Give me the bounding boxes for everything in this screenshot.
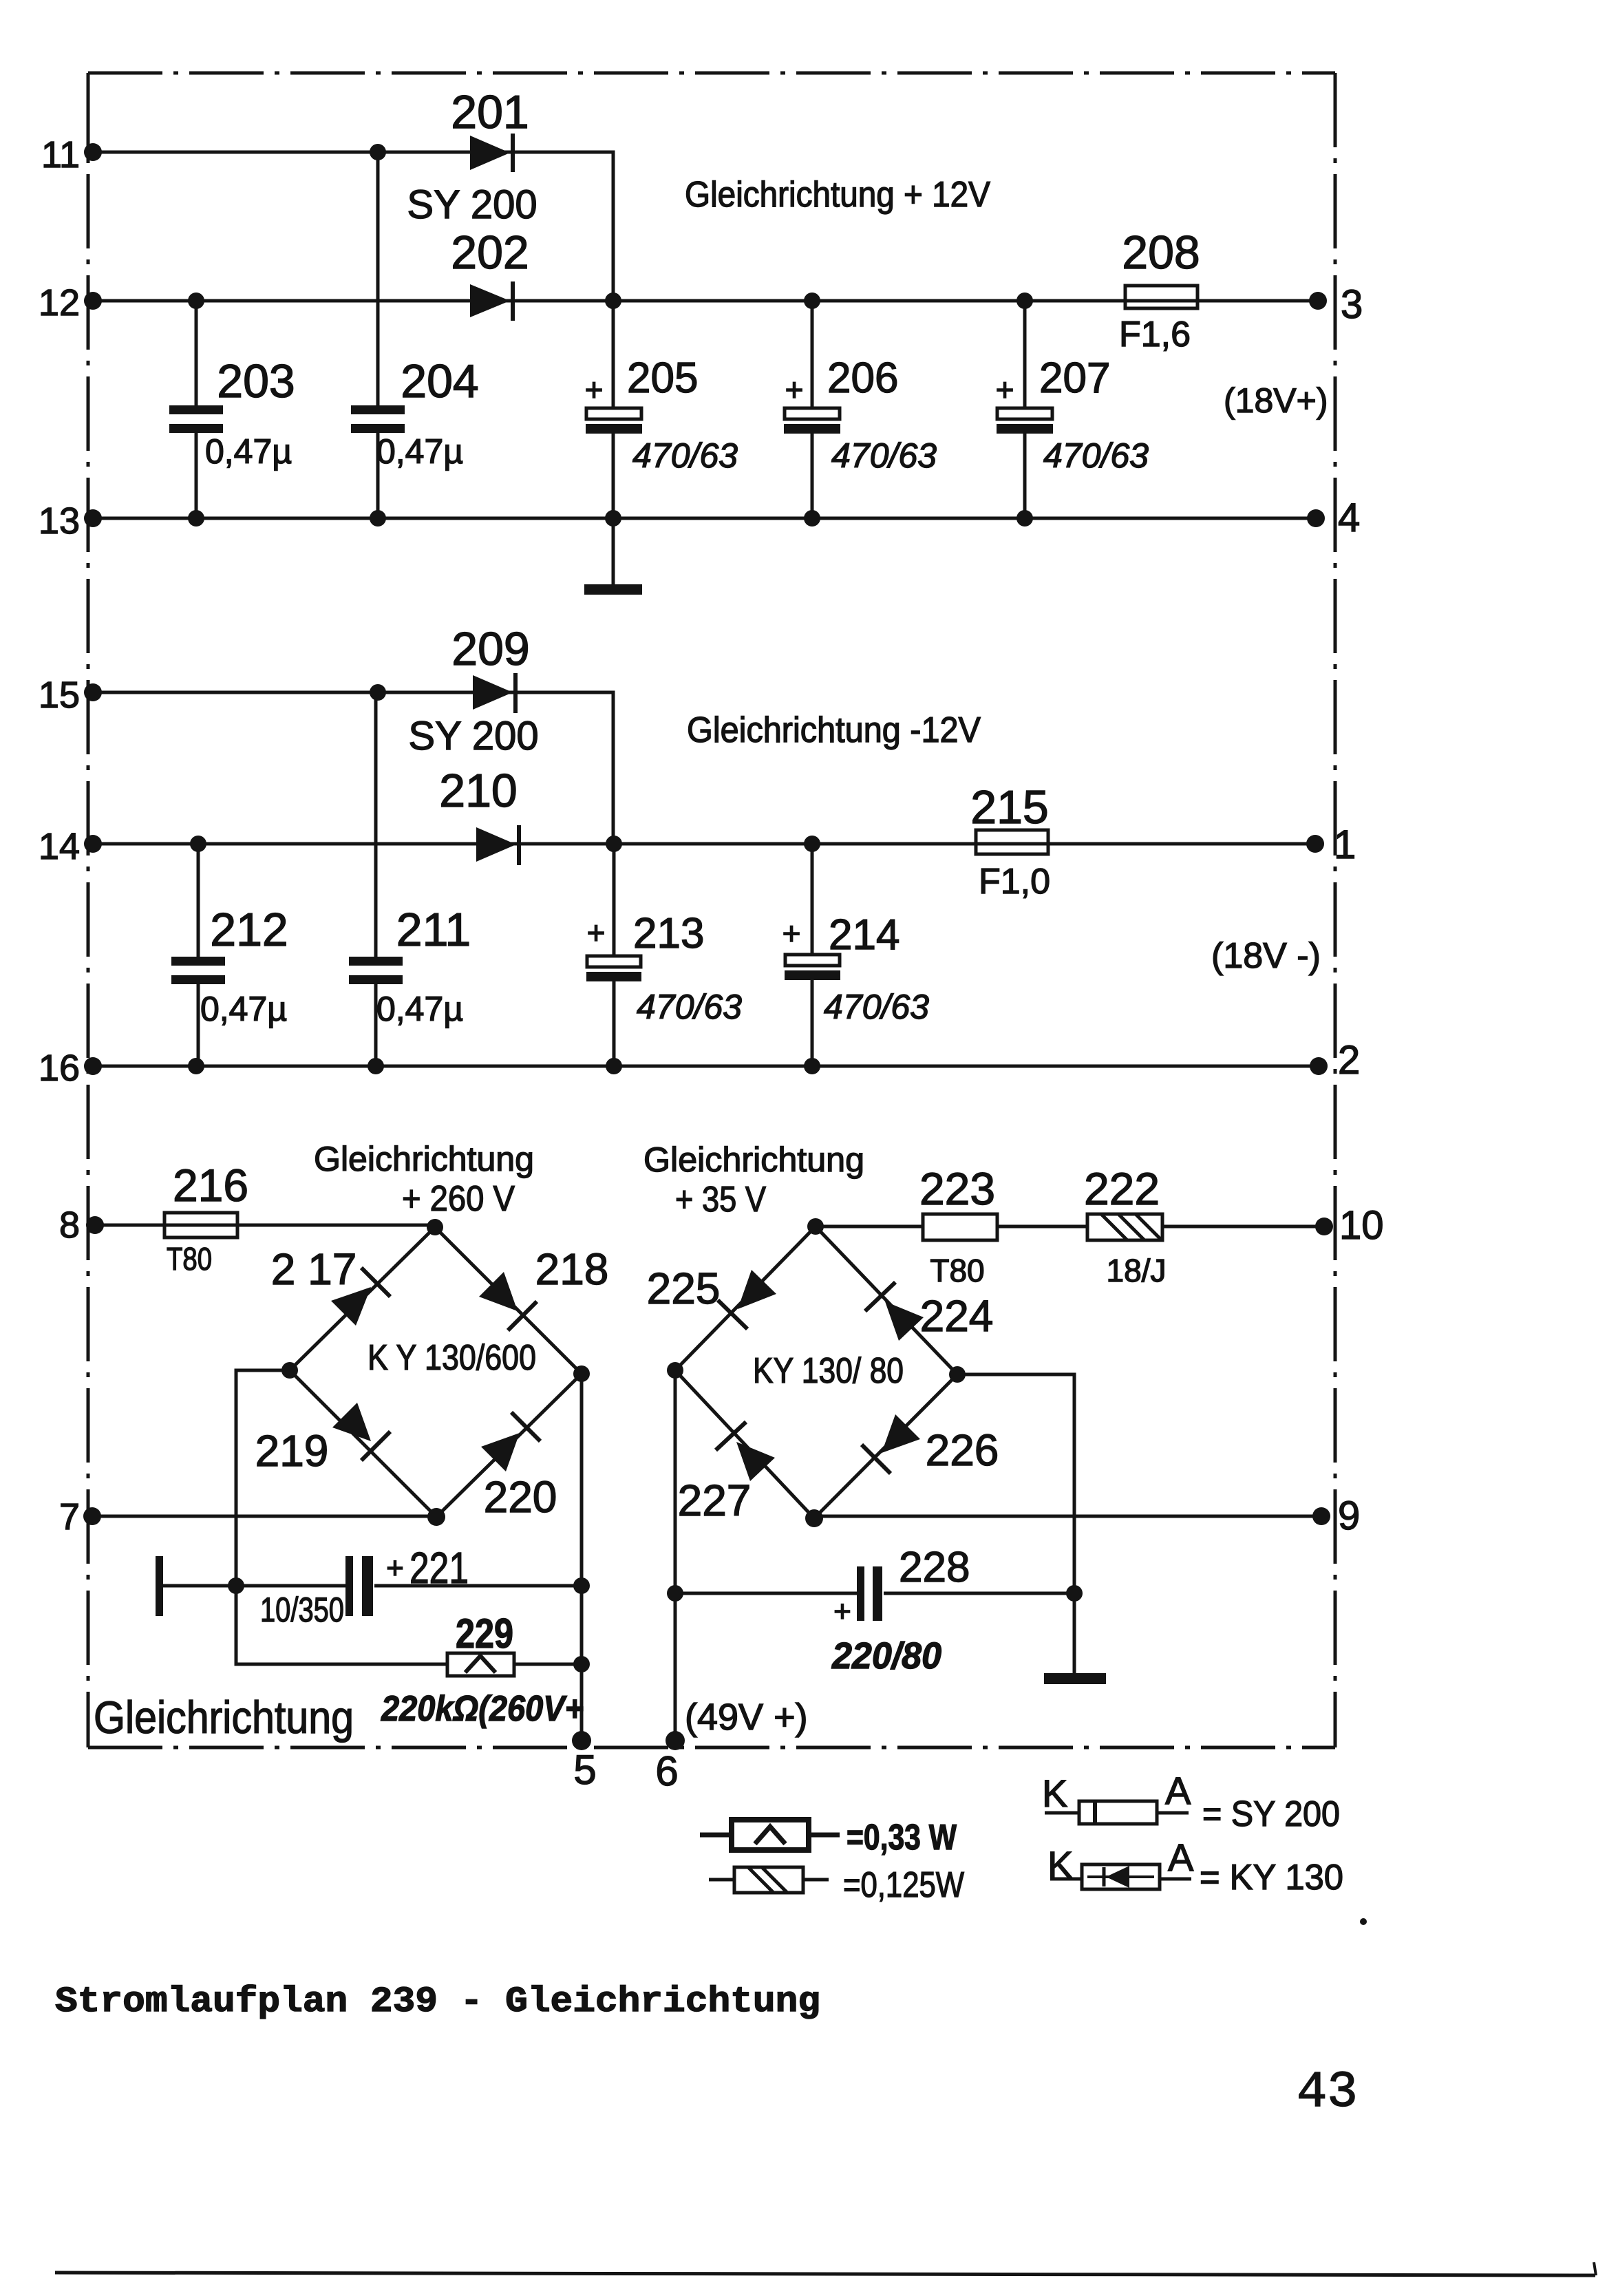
svg-text:11: 11 xyxy=(41,134,80,176)
svg-text:16: 16 xyxy=(39,1048,80,1089)
svg-text:+: + xyxy=(587,915,606,950)
svg-text:212: 212 xyxy=(210,904,288,956)
svg-text:Gleichrichtung + 12V: Gleichrichtung + 12V xyxy=(685,175,990,215)
svg-text:211: 211 xyxy=(396,904,471,956)
svg-text:205: 205 xyxy=(627,354,698,402)
svg-text:6: 6 xyxy=(655,1748,678,1794)
svg-text:8: 8 xyxy=(59,1204,80,1246)
svg-text:220: 220 xyxy=(484,1472,557,1522)
svg-text:224: 224 xyxy=(920,1291,994,1341)
svg-text:215: 215 xyxy=(970,781,1048,833)
svg-text:0,47µ: 0,47µ xyxy=(376,990,463,1028)
svg-text:4: 4 xyxy=(1338,496,1360,540)
svg-text:209: 209 xyxy=(451,623,529,675)
svg-text:216: 216 xyxy=(173,1160,248,1211)
svg-text:= KY 130: = KY 130 xyxy=(1200,1858,1343,1898)
svg-text:+: + xyxy=(996,372,1014,407)
svg-text:223: 223 xyxy=(919,1163,995,1214)
svg-text:208: 208 xyxy=(1122,226,1200,279)
svg-text:226: 226 xyxy=(926,1425,999,1475)
svg-text:470/63: 470/63 xyxy=(637,988,742,1026)
svg-text:12: 12 xyxy=(39,282,80,323)
svg-text:K: K xyxy=(1042,1772,1067,1815)
svg-text:T80: T80 xyxy=(930,1253,984,1288)
svg-text:214: 214 xyxy=(829,911,900,959)
svg-text:T80: T80 xyxy=(167,1241,212,1277)
svg-text:222: 222 xyxy=(1084,1163,1160,1214)
svg-text:228: 228 xyxy=(899,1544,970,1591)
svg-text:220kΩ(260V+: 220kΩ(260V+ xyxy=(381,1689,584,1729)
svg-text:2 17: 2 17 xyxy=(271,1244,357,1294)
svg-text:13: 13 xyxy=(39,500,80,542)
svg-text:K Y 130/600: K Y 130/600 xyxy=(368,1338,536,1378)
svg-text:3: 3 xyxy=(1341,282,1363,327)
svg-text:229: 229 xyxy=(456,1611,513,1657)
svg-text:0,47µ: 0,47µ xyxy=(376,432,463,471)
svg-text:9: 9 xyxy=(1338,1494,1360,1538)
svg-text:10/350: 10/350 xyxy=(260,1591,344,1629)
svg-text:SY 200: SY 200 xyxy=(408,714,538,758)
svg-text:2: 2 xyxy=(1338,1038,1360,1083)
svg-text:470/63: 470/63 xyxy=(632,436,738,475)
svg-text:KY 130/ 80: KY 130/ 80 xyxy=(753,1351,904,1391)
svg-text:+: + xyxy=(386,1551,404,1585)
svg-text:= SY 200: = SY 200 xyxy=(1202,1794,1340,1834)
svg-text:14: 14 xyxy=(39,826,80,867)
svg-text:10: 10 xyxy=(1339,1203,1384,1248)
svg-text:Gleichrichtung -12V: Gleichrichtung -12V xyxy=(687,710,981,750)
svg-text:(49V +): (49V +) xyxy=(685,1697,808,1738)
svg-text:18/J: 18/J xyxy=(1107,1253,1167,1288)
svg-text:F1,6: F1,6 xyxy=(1119,315,1191,354)
svg-text:7: 7 xyxy=(59,1496,80,1538)
svg-text:SY 200: SY 200 xyxy=(407,182,537,227)
svg-text:219: 219 xyxy=(255,1426,329,1476)
svg-text:Gleichrichtung: Gleichrichtung xyxy=(314,1140,534,1178)
svg-text:470/63: 470/63 xyxy=(1043,436,1149,475)
svg-text:220/80: 220/80 xyxy=(831,1635,941,1677)
svg-text:0,47µ: 0,47µ xyxy=(205,432,292,471)
svg-text:207: 207 xyxy=(1039,354,1110,402)
svg-text:218: 218 xyxy=(535,1244,609,1294)
svg-text:201: 201 xyxy=(451,86,529,138)
svg-text:F1,0: F1,0 xyxy=(979,862,1050,902)
svg-text:227: 227 xyxy=(678,1476,752,1525)
svg-text:K: K xyxy=(1047,1843,1073,1886)
svg-text:=0,125W: =0,125W xyxy=(843,1865,964,1905)
svg-text:A: A xyxy=(1165,1769,1191,1812)
svg-text:225: 225 xyxy=(647,1264,721,1313)
svg-text:1: 1 xyxy=(1334,822,1356,867)
svg-text:Gleichrichtung: Gleichrichtung xyxy=(643,1140,864,1179)
svg-text:+ 35 V: + 35 V xyxy=(675,1180,766,1220)
svg-text:221: 221 xyxy=(409,1543,469,1593)
svg-text:Stromlaufplan 239 - Gleichri: Stromlaufplan 239 - Gleichrichtung xyxy=(55,1981,820,2022)
svg-text:213: 213 xyxy=(633,910,704,957)
svg-text:5: 5 xyxy=(573,1747,596,1793)
svg-text:203: 203 xyxy=(217,355,295,407)
svg-text:+: + xyxy=(833,1595,851,1628)
svg-text:210: 210 xyxy=(439,765,517,817)
svg-text:0,47µ: 0,47µ xyxy=(200,990,287,1028)
svg-text:(18V -): (18V -) xyxy=(1211,936,1321,976)
svg-text:Gleichrichtung: Gleichrichtung xyxy=(94,1692,354,1743)
svg-text:470/63: 470/63 xyxy=(824,988,929,1026)
svg-text:202: 202 xyxy=(451,226,529,279)
svg-text:+: + xyxy=(783,915,801,951)
svg-text:470/63: 470/63 xyxy=(831,436,937,475)
svg-text:=0,33 W: =0,33 W xyxy=(847,1818,957,1858)
svg-text:+ 260 V: + 260 V xyxy=(402,1179,515,1219)
svg-text:15: 15 xyxy=(39,674,80,716)
svg-text:204: 204 xyxy=(401,355,478,407)
svg-text:+: + xyxy=(785,372,804,407)
svg-text:A: A xyxy=(1168,1836,1194,1879)
svg-text:+: + xyxy=(585,372,604,407)
svg-text:(18V+): (18V+) xyxy=(1224,381,1328,420)
svg-text:43: 43 xyxy=(1297,2064,1358,2122)
svg-text:206: 206 xyxy=(827,354,898,402)
